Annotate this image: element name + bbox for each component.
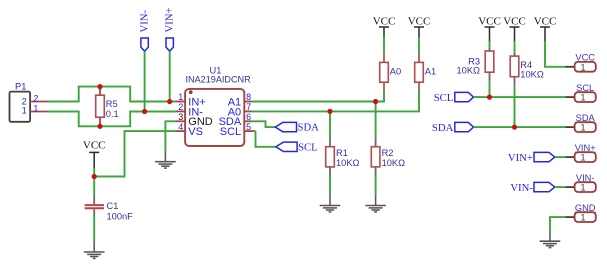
svg-text:A0: A0 bbox=[390, 66, 401, 76]
junction VCC/VS/C1 bbox=[92, 174, 97, 179]
wire SDA line bbox=[474, 126, 566, 128]
wire VCC to C1 bbox=[93, 168, 95, 194]
header pin SDA bbox=[566, 113, 596, 133]
wire VCC to A0 bbox=[383, 37, 385, 54]
power VCC (above A1) bbox=[408, 16, 431, 37]
svg-text:6: 6 bbox=[246, 112, 251, 122]
svg-text:2: 2 bbox=[33, 93, 38, 103]
svg-text:3: 3 bbox=[178, 112, 183, 122]
wire R1 to ground bbox=[329, 176, 331, 196]
wire U1.3 GND to ground bbox=[165, 121, 176, 151]
svg-text:7: 7 bbox=[246, 102, 251, 112]
svg-text:1: 1 bbox=[22, 106, 27, 116]
svg-text:VIN-: VIN- bbox=[138, 10, 150, 33]
junction R5 top bbox=[97, 84, 102, 89]
svg-text:1: 1 bbox=[178, 92, 183, 102]
junction R4 on SDA line bbox=[512, 125, 517, 130]
ground (R2) bbox=[365, 196, 386, 212]
svg-text:2: 2 bbox=[178, 102, 183, 112]
net flag VIN+ (top) bbox=[164, 7, 176, 51]
wire VIN+ drop bbox=[169, 51, 171, 101]
svg-text:C1: C1 bbox=[107, 201, 119, 211]
wire R2 to ground bbox=[375, 176, 377, 196]
port VIN+ (right) bbox=[508, 152, 555, 164]
svg-text:VCC: VCC bbox=[83, 139, 106, 151]
port SCL (near chip) bbox=[276, 141, 318, 153]
wire VIN- drop bbox=[144, 51, 146, 111]
svg-text:VCC: VCC bbox=[503, 16, 526, 28]
svg-text:1: 1 bbox=[580, 183, 585, 193]
wire R4 to SDA line bbox=[514, 86, 516, 127]
svg-text:SDA: SDA bbox=[432, 122, 454, 134]
wire VIN+ line bbox=[555, 156, 566, 158]
wire VIN- line bbox=[555, 186, 566, 188]
junction R1 on A0 line bbox=[327, 109, 332, 114]
svg-text:VCC: VCC bbox=[478, 16, 501, 28]
svg-text:8: 8 bbox=[246, 92, 251, 102]
svg-text:SCL: SCL bbox=[220, 126, 241, 138]
resistor A0 bbox=[380, 54, 401, 92]
svg-text:100nF: 100nF bbox=[107, 211, 134, 221]
power VCC (above R3) bbox=[478, 16, 501, 41]
svg-text:10KΩ: 10KΩ bbox=[457, 66, 481, 76]
junction R5 bottom bbox=[97, 124, 102, 129]
svg-text:VCC: VCC bbox=[408, 16, 431, 28]
wire VCC to R3 bbox=[489, 41, 491, 51]
junction R3 on SCL line bbox=[487, 95, 492, 100]
svg-text:1: 1 bbox=[580, 123, 585, 133]
capacitor C1 100nF bbox=[85, 194, 134, 221]
wire U1.4 VS to VCC junction bbox=[94, 131, 176, 176]
port SDA (right) bbox=[432, 122, 474, 134]
svg-text:R5: R5 bbox=[106, 99, 118, 109]
ground (right header) bbox=[540, 232, 561, 248]
junction VIN+ on IN+ line bbox=[167, 99, 172, 104]
wire VCC to R4 bbox=[514, 41, 516, 56]
svg-text:10KΩ: 10KΩ bbox=[520, 69, 544, 79]
svg-text:R1: R1 bbox=[336, 148, 348, 158]
wire net A1: U1.8 to A0 resistor bbox=[252, 92, 385, 102]
svg-text:INA219AIDCNR: INA219AIDCNR bbox=[186, 75, 252, 85]
port SDA (near chip) bbox=[275, 122, 319, 134]
svg-text:VIN+: VIN+ bbox=[508, 152, 533, 164]
svg-text:4: 4 bbox=[178, 122, 183, 132]
svg-text:SDA: SDA bbox=[298, 122, 320, 134]
wire GND header to ground bbox=[550, 217, 566, 232]
IC U1 INA219AIDCNR bbox=[176, 66, 256, 146]
resistor R2 10K bbox=[371, 138, 405, 177]
svg-text:1: 1 bbox=[580, 62, 585, 72]
wire net IN- from P1.1 to U1.2 bbox=[48, 112, 176, 127]
power VCC (above R4) bbox=[503, 16, 526, 41]
svg-text:0.1: 0.1 bbox=[106, 109, 119, 119]
resistor A1 bbox=[415, 54, 436, 92]
power VCC (right, to header) bbox=[534, 16, 557, 41]
header pin SCL bbox=[566, 83, 596, 103]
resistor R3 10K bbox=[457, 48, 494, 82]
svg-text:VIN+: VIN+ bbox=[164, 7, 176, 32]
svg-text:1: 1 bbox=[580, 153, 585, 163]
wire VCC to A1 bbox=[418, 37, 420, 54]
wire net A0: U1.7 to A1 resistor bbox=[252, 92, 420, 112]
header pin GND bbox=[566, 203, 596, 223]
power VCC (left, above C1) bbox=[83, 139, 106, 168]
wire C1 to ground bbox=[93, 216, 95, 242]
net flag VIN- (top) bbox=[138, 10, 150, 52]
wire R3 to SCL line bbox=[489, 82, 491, 97]
header pin VIN+ bbox=[566, 143, 596, 163]
svg-text:VCC: VCC bbox=[373, 16, 396, 28]
svg-text:10KΩ: 10KΩ bbox=[336, 158, 360, 168]
junction VIN- on IN- line bbox=[142, 109, 147, 114]
wire U1.5 SCL to flag bbox=[256, 131, 276, 147]
ground (chip pin3) bbox=[155, 151, 176, 168]
ground (R1) bbox=[320, 196, 341, 212]
wire U1.6 SDA to flag bbox=[252, 121, 276, 127]
wire VCC to VCC header bbox=[545, 41, 566, 67]
svg-text:1: 1 bbox=[580, 213, 585, 223]
connector P1 bbox=[10, 81, 49, 121]
svg-text:VS: VS bbox=[188, 126, 203, 138]
svg-text:VCC: VCC bbox=[534, 16, 557, 28]
port SCL (right) bbox=[434, 92, 474, 104]
junction R2 on A1 line bbox=[373, 99, 378, 104]
wire R2 drop bbox=[375, 102, 377, 138]
resistor R1 10K bbox=[326, 138, 360, 177]
wire R1 drop bbox=[329, 111, 331, 137]
svg-text:5: 5 bbox=[246, 122, 251, 132]
svg-text:10KΩ: 10KΩ bbox=[382, 158, 406, 168]
ground (C1) bbox=[84, 242, 105, 259]
svg-text:SCL: SCL bbox=[434, 92, 454, 104]
header pin VIN- bbox=[566, 173, 596, 193]
header pin VCC bbox=[566, 53, 596, 73]
svg-text:P1: P1 bbox=[15, 81, 26, 91]
power VCC (above A0) bbox=[373, 16, 396, 37]
resistor R4 10K bbox=[510, 53, 544, 86]
svg-text:VIN-: VIN- bbox=[510, 182, 533, 194]
port VIN- (right) bbox=[510, 182, 554, 194]
svg-text:1: 1 bbox=[33, 103, 38, 113]
svg-text:R2: R2 bbox=[382, 148, 394, 158]
resistor R5 0.1 bbox=[96, 87, 119, 127]
wire net IN+ from P1.2 to U1.1 bbox=[48, 87, 176, 102]
svg-text:1: 1 bbox=[580, 93, 585, 103]
svg-text:SCL: SCL bbox=[298, 141, 318, 153]
svg-text:A1: A1 bbox=[425, 66, 436, 76]
wire SCL line bbox=[474, 96, 566, 98]
